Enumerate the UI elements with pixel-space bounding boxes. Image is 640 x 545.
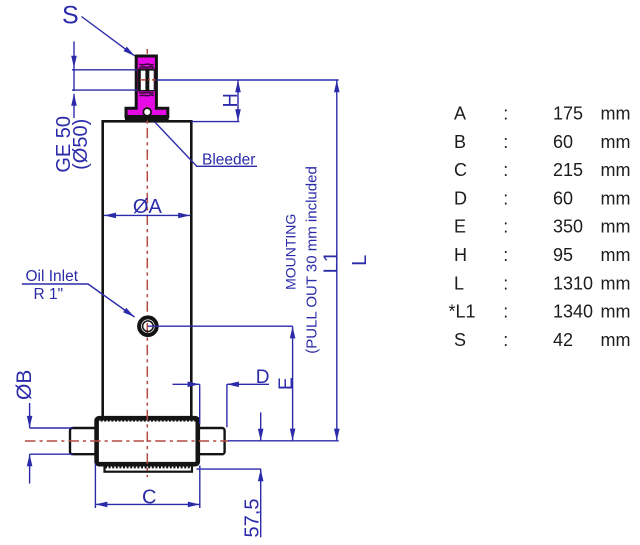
bottom plate [105,465,193,472]
dim H line [237,80,239,121]
ext ØB top [30,427,73,429]
bottom plate serration [105,466,191,468]
svg-text:*L1: *L1 [449,302,476,322]
svg-text:1340: 1340 [553,302,593,322]
leader S [82,17,135,57]
leader bleeder [155,122,257,167]
dim 57,5 stub top [260,412,262,440]
dim L1 line [336,80,338,441]
trunnion right pin [198,428,225,454]
svg-text:(Ø50): (Ø50) [70,119,92,170]
svg-text:60: 60 [553,132,573,152]
ext ØB bottom [30,453,73,455]
trunnion block serration top [97,420,197,422]
svg-text:215: 215 [553,160,583,180]
svg-text:mm: mm [601,104,631,124]
ext H bottom [191,121,239,123]
svg-text:60: 60 [553,188,573,208]
thread swirl lower [139,92,153,95]
dim D [173,383,200,385]
ext line bearing center to L1 [157,79,339,81]
dim E [292,326,294,441]
ext oil inlet to E [148,325,293,327]
bearing dim stub bottom [73,94,75,118]
red trunnion centerline [25,440,229,442]
svg-text:mm: mm [601,302,631,322]
ext trunnion center to L1 [228,440,339,442]
svg-text::: : [503,104,508,124]
svg-text:B: B [454,132,466,152]
svg-text:175: 175 [553,104,583,124]
bearing slot right window [149,71,153,90]
svg-text:S: S [454,330,466,350]
red bearing centerline dash [140,79,155,81]
bearing ext bottom [72,89,137,91]
svg-text:mm: mm [601,330,631,350]
svg-text:mm: mm [601,188,631,208]
svg-text:C: C [142,486,156,508]
flange bottom black bar [125,115,169,121]
ext 57,5 bottom [197,468,262,470]
svg-text:L: L [349,255,371,266]
svg-text:MOUNTING: MOUNTING [283,214,299,290]
svg-text:R 1": R 1" [34,286,64,303]
red vertical centerline [146,106,148,477]
svg-text::: : [503,273,508,293]
svg-text:Bleeder: Bleeder [202,151,255,168]
dim ØB stub bottom [29,454,31,483]
dim C [95,503,199,505]
dim ØA [104,214,190,216]
svg-text:42: 42 [553,330,573,350]
svg-text:H: H [454,245,467,265]
ext C left [94,464,96,509]
ext D right [226,384,228,427]
svg-text:H: H [220,93,242,107]
red vertical centerline top tick [146,49,148,54]
bearing slot left window [141,71,146,90]
svg-text:95: 95 [553,245,573,265]
svg-text::: : [503,217,508,237]
svg-text:1310: 1310 [553,273,593,293]
svg-text::: : [503,160,508,180]
dim 57,5 line [260,469,262,537]
svg-text:mm: mm [601,245,631,265]
svg-text::: : [503,245,508,265]
thread swirl upper [139,64,153,67]
svg-text:L1: L1 [320,251,342,273]
trunnion left pin [70,428,97,454]
dim ØB stub top [29,403,31,428]
svg-text::: : [503,132,508,152]
svg-text:(PULL OUT 30 mm included: (PULL OUT 30 mm included [303,166,320,354]
svg-text:D: D [454,188,467,208]
svg-text::: : [503,330,508,350]
svg-text:E: E [276,377,297,390]
leader oil inlet [22,284,135,317]
svg-text:D: D [256,367,270,388]
rod eye slot housing [138,69,155,92]
svg-text:A: A [454,104,466,124]
svg-text:350: 350 [553,217,583,237]
svg-text:Oil Inlet: Oil Inlet [26,268,79,285]
svg-text::: : [503,302,508,322]
svg-text:C: C [454,160,467,180]
svg-text:mm: mm [601,160,631,180]
ext C right [199,466,201,509]
svg-text:mm: mm [601,132,631,152]
ext D left [199,384,201,424]
svg-text:mm: mm [601,217,631,237]
bearing dim stub [73,41,75,91]
bleeder hole [143,108,151,116]
svg-text::: : [503,188,508,208]
svg-text:mm: mm [601,273,631,293]
trunnion block [97,418,198,464]
rod eye T-shape (magenta) [126,56,168,117]
svg-text:ØA: ØA [133,196,163,218]
bearing ext top [72,69,137,71]
svg-text:L: L [454,273,464,293]
cylinder body tube [103,121,192,418]
svg-text:S: S [62,2,79,30]
svg-text:E: E [454,217,466,237]
oil inlet port [139,317,157,335]
svg-text:57,5: 57,5 [241,499,263,538]
svg-text:ØB: ØB [13,370,36,400]
